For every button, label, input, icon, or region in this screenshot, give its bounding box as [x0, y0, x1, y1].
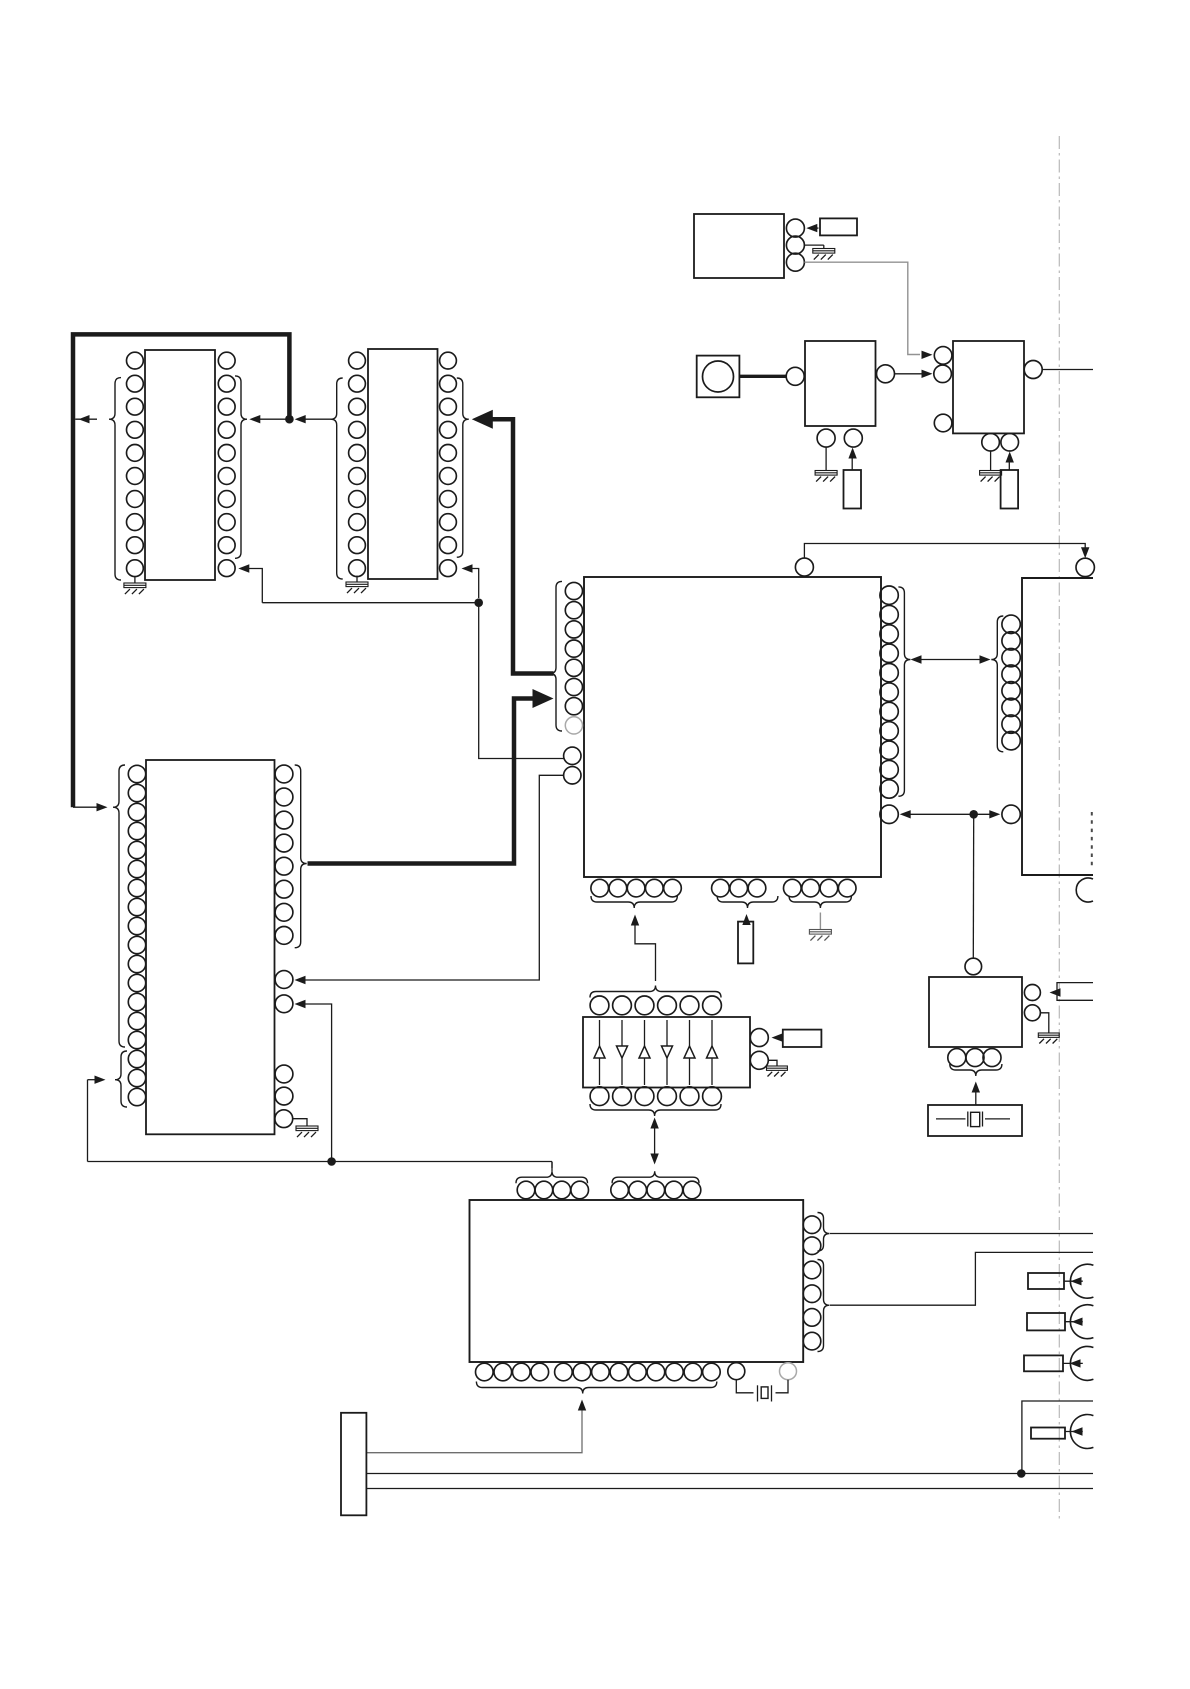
bus A thick from IC2 to U4: [490, 419, 554, 673]
bus C thick loop to IC3: [73, 334, 289, 807]
U7 bottom pins: [948, 1049, 966, 1067]
U7 bottom brace: [950, 1064, 1002, 1076]
connector frame at fold: [1022, 1401, 1093, 1474]
double arrow D1 to IC5: [654, 1122, 656, 1160]
junction node B: [327, 1157, 336, 1166]
crystal X2 box: [928, 1105, 1022, 1136]
wire U4 to IC3 pin 1: [305, 775, 564, 980]
ground at U2: [825, 447, 827, 470]
wire IC1 left bus arrow: [75, 418, 97, 420]
bus B arrowhead at U4: [533, 689, 554, 708]
IC5 right pins groupA: [803, 1216, 821, 1234]
U4 right pins: [880, 586, 898, 604]
wire CN1 to IC5 brace: [366, 1403, 582, 1453]
IC IC1: [145, 350, 215, 580]
IC U3: [953, 341, 1024, 433]
connector CN1: [341, 1413, 366, 1516]
wire IC5 groupA to edge: [830, 1233, 1093, 1235]
wire IC2 strobe: [467, 569, 479, 599]
data bus double arrow U4-CN3: [914, 659, 987, 661]
wire strobe to U4: [479, 603, 564, 759]
wire strobe junction: [474, 598, 483, 607]
U4 right lower pin: [880, 805, 898, 823]
wire data in to IC3 lower brace: [87, 1080, 89, 1162]
IC1 right brace: [235, 376, 247, 558]
IC3 right mid pins: [275, 971, 293, 989]
resistor R3: [1001, 470, 1019, 509]
U4 left brace: [550, 581, 562, 731]
U4 bottom brace1: [591, 896, 677, 908]
wire long net to IC5: [88, 1161, 553, 1163]
CN3 clipped pin below: [1076, 878, 1093, 902]
ground at IC1 pin: [134, 577, 136, 583]
crystal X2 symbol: [936, 1118, 966, 1120]
D1 side pins: [750, 1029, 768, 1047]
resistor R8 with clipped pin: [1027, 1313, 1065, 1330]
wire node C to U7: [972, 814, 974, 958]
node U2 input pin: [786, 367, 804, 385]
wire IC1 strobe: [247, 569, 262, 603]
IC5 top brace2: [612, 1171, 699, 1183]
wire R6 to U7: [1052, 992, 1057, 994]
pins of U1: [786, 219, 804, 237]
U4 bottom brace2: [717, 896, 778, 908]
CN3 top pin: [1076, 558, 1094, 576]
clipped label text at fold: [1091, 812, 1093, 868]
wire bottom net 1: [366, 1473, 1093, 1475]
IC U2: [805, 341, 876, 426]
U2 output pin: [877, 365, 895, 383]
IC U4 main controller: [584, 577, 881, 877]
D1 top pins: [590, 996, 609, 1015]
wire R5 to D1: [779, 1037, 783, 1039]
U2 bottom pins: [817, 429, 835, 447]
IC2 left pins: [349, 352, 366, 369]
IC5 right braceB: [818, 1260, 830, 1352]
page fold dash-dot line: [1058, 136, 1060, 1522]
wire bus C arrow into IC3 brace: [73, 806, 97, 808]
ground at U7: [1040, 1013, 1048, 1033]
IC5 crystal pins: [728, 1363, 745, 1380]
wire U4 brace1 to diode array: [635, 919, 656, 981]
resistor R4: [738, 922, 753, 964]
CN3 lower pin: [1002, 805, 1020, 823]
junction node A: [285, 415, 294, 424]
wire net into IC5 brace1: [551, 1162, 553, 1171]
resistor R5: [783, 1030, 822, 1047]
bus B thick from IC3 to U4: [308, 699, 537, 864]
IC1 left brace: [109, 378, 121, 580]
IC3 left brace upper: [113, 765, 125, 1047]
IC3 right brace: [295, 765, 307, 948]
wire U3 output to page edge: [1042, 369, 1093, 371]
wire X1 to U2: [739, 375, 786, 378]
IC3 right bottom pins: [275, 1065, 293, 1083]
junction node D: [1017, 1469, 1026, 1478]
wire U2 to U3: [895, 373, 924, 375]
CN3 pins brace: [991, 616, 1003, 752]
wire bottom net 2: [366, 1488, 1093, 1490]
U3 output pin: [1024, 361, 1042, 379]
IC5 top pins group1: [517, 1181, 535, 1199]
junction node C: [969, 810, 978, 819]
wire IC1-IC2 bus link with arrows: [258, 418, 288, 420]
U4 right brace: [898, 587, 910, 796]
U4 bottom pins group3: [784, 879, 802, 897]
wire net drop to IC5 brace: [551, 1162, 553, 1169]
wire U4 clock to CN3 board: [804, 544, 1085, 559]
ground at U3: [990, 451, 992, 470]
oscillator X1: [697, 356, 740, 398]
wire IC3 pin 2 to node B: [305, 1004, 332, 1162]
IC1 left pins: [126, 352, 143, 369]
wire crystal X2 to U7: [975, 1086, 977, 1105]
U4 left pins: [565, 582, 582, 599]
wire R3 to U3 pin: [1008, 454, 1010, 470]
ground at U4 brace3: [819, 913, 821, 930]
U7 top pin: [965, 958, 982, 975]
IC5 right braceA: [818, 1213, 830, 1252]
IC5 bottom pins group2: [555, 1363, 573, 1381]
U4 bottom pins group1: [591, 879, 609, 897]
connector board CN3 outline: [1022, 578, 1093, 875]
wire IC5 groupB to edge: [830, 1252, 1093, 1305]
U4 bottom brace3: [789, 896, 851, 908]
D1 top brace: [590, 986, 721, 998]
IC3 right top pins: [275, 765, 293, 783]
IC3 left brace lower: [115, 1051, 127, 1107]
wire R2 to U2 pin: [851, 450, 853, 470]
U3 input pins: [934, 347, 952, 365]
U3 spare pin: [934, 414, 952, 432]
ground at D1: [768, 1060, 777, 1066]
resistor R10 with clipped pin: [1031, 1428, 1065, 1439]
U4 left pin 8 faded: [565, 717, 582, 734]
diodes D1a-D1f: [599, 1020, 601, 1085]
wire R4 to U4 brace2: [745, 918, 747, 922]
ground at IC3 pin: [293, 1119, 307, 1126]
D1 bottom pins: [590, 1087, 609, 1106]
control double arrow U4-CN3: [902, 813, 998, 815]
IC5 crystal pin faded: [780, 1363, 797, 1380]
IC IC3: [146, 760, 275, 1134]
IC2 left brace: [331, 378, 343, 579]
U4 bottom pins group2: [712, 879, 730, 897]
resistor R6 at fold: [1057, 983, 1093, 1001]
resistor R7 with clipped pin: [1028, 1273, 1064, 1289]
ground at U1 pin 2: [804, 244, 823, 246]
IC5 bottom pins group1: [476, 1363, 494, 1381]
crystal X3: [736, 1380, 753, 1393]
IC IC2: [368, 349, 438, 579]
IC5 top brace1: [516, 1171, 588, 1183]
U7 right pins: [1024, 985, 1040, 1001]
resistor R2: [844, 470, 862, 509]
U3 bottom pins: [982, 433, 1000, 451]
IC2 right pins: [440, 352, 457, 369]
IC3 left pins: [128, 765, 145, 782]
IC U7 reset: [929, 977, 1022, 1047]
U4 left lower pins: [564, 747, 581, 764]
diode array D1 body: [583, 1017, 750, 1088]
D1 bottom brace: [590, 1104, 721, 1116]
wire U1 pin 3 to U3 input: [804, 262, 920, 354]
IC5 right pins groupB: [803, 1261, 821, 1279]
U4 top pin: [795, 558, 813, 576]
IC IC5 driver: [470, 1200, 804, 1362]
CN3 left pins: [1002, 615, 1020, 633]
bus A arrowhead at IC2: [472, 410, 493, 429]
IC U1: [694, 214, 784, 278]
IC1 right pins: [218, 352, 235, 369]
resistor R9 with clipped pin: [1024, 1355, 1063, 1371]
IC5 top pins group2: [611, 1181, 629, 1199]
resistor R1: [820, 218, 857, 235]
IC2 right brace: [457, 378, 469, 557]
IC5 bottom brace: [476, 1382, 716, 1394]
ground at IC2 pin: [356, 576, 358, 582]
wire R1 to U1 pin 1: [809, 227, 819, 229]
